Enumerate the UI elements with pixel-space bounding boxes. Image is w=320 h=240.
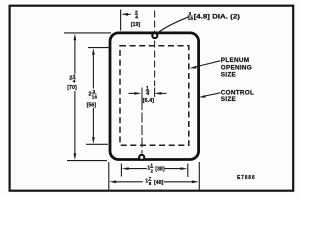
- svg-text:4: 4: [146, 91, 149, 97]
- svg-text:[19]: [19]: [131, 22, 141, 28]
- svg-text:[4.8] DIA. (2): [4.8] DIA. (2): [194, 13, 240, 20]
- svg-text:2: 2: [151, 168, 154, 173]
- svg-text:PLENUM: PLENUM: [221, 57, 249, 64]
- svg-text:4: 4: [135, 15, 138, 21]
- svg-text:[56]: [56]: [87, 103, 97, 109]
- svg-text:SIZE: SIZE: [221, 96, 237, 103]
- svg-text:[38]: [38]: [155, 167, 165, 173]
- svg-text:1: 1: [150, 163, 153, 168]
- svg-text:4: 4: [73, 78, 76, 84]
- svg-text:[6.4]: [6.4]: [143, 98, 155, 104]
- svg-text:16: 16: [92, 95, 98, 101]
- svg-text:8: 8: [149, 181, 152, 186]
- svg-text:SIZE: SIZE: [221, 71, 237, 78]
- svg-text:E7888: E7888: [237, 175, 255, 181]
- svg-text:[48]: [48]: [154, 180, 164, 186]
- svg-text:OPENING: OPENING: [221, 64, 252, 71]
- svg-text:[70]: [70]: [67, 85, 77, 91]
